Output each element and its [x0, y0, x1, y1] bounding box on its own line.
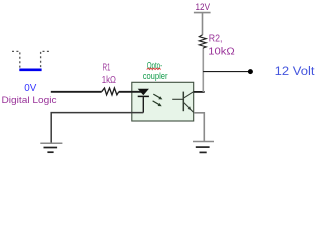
svg-text:12 Volt: 12 Volt: [275, 66, 316, 78]
wire: collector out: [194, 91, 205, 93]
svg-text:10kΩ: 10kΩ: [208, 47, 235, 58]
arrow light 1: [153, 94, 162, 99]
transistor Q1 base lead: [172, 98, 183, 100]
transistor Q1 emitter arrowhead: [188, 106, 192, 110]
svg-text:0V: 0V: [24, 83, 36, 94]
svg-text:R2,: R2,: [209, 34, 223, 45]
LED anode triangle: [138, 89, 149, 96]
transistor Q1 base bar: [182, 92, 184, 112]
ground right middle bar: [196, 146, 210, 148]
LED cathode bar: [138, 95, 149, 97]
svg-text:1kΩ: 1kΩ: [102, 74, 116, 86]
wire: collector vertical to R2: [202, 48, 204, 92]
ground right top bar: [193, 141, 214, 143]
ground left bottom bar: [47, 151, 53, 153]
waveform icon dashed outline: [12, 51, 49, 68]
svg-text:coupler: coupler: [143, 71, 168, 82]
arrow light 2: [153, 101, 162, 106]
resistor R1: [102, 88, 119, 95]
waveform low level blue bar: [19, 68, 41, 71]
spellcheck squiggle: [147, 68, 161, 70]
LED cathode lead: [142, 96, 144, 112]
optocoupler box: [132, 82, 194, 121]
wire: emitter out: [194, 113, 204, 141]
ground right bottom bar: [200, 151, 207, 153]
svg-text:R1: R1: [103, 62, 111, 73]
wire: R2 top to power bar: [202, 13, 204, 35]
wire: R1 to LED anode: [119, 91, 144, 93]
ground left middle bar: [44, 147, 58, 149]
svg-text:Digital Logic: Digital Logic: [2, 95, 57, 106]
svg-text:Opto-: Opto-: [147, 61, 163, 72]
transistor Q1 collector diagonal: [184, 92, 194, 98]
svg-text:12V: 12V: [196, 2, 211, 13]
transistor Q1 emitter diagonal: [184, 103, 194, 113]
output terminal dot: [248, 69, 253, 74]
ground left top bar: [40, 142, 62, 144]
wire: output tap: [203, 71, 248, 73]
wire: cathode return: [51, 113, 143, 143]
power bar 12V: [194, 12, 211, 14]
wire: input to R1: [51, 91, 102, 93]
resistor R2: [199, 35, 206, 49]
